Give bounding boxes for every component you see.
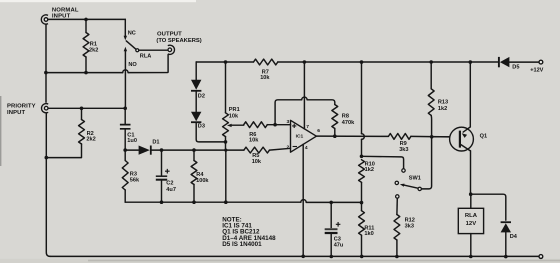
svg-text:12V: 12V bbox=[466, 221, 477, 227]
resistor R5 10k bbox=[244, 147, 270, 153]
node C3 top on sub-rail bbox=[329, 201, 333, 205]
diode D5 bbox=[500, 57, 510, 67]
wire pin7 to rail bbox=[303, 62, 305, 129]
wire normal input to NC column bbox=[48, 18, 125, 20]
node D4 bottom on 0V rail bbox=[504, 255, 508, 259]
node R1 bottom bbox=[84, 71, 88, 75]
svg-text:4u7: 4u7 bbox=[166, 187, 176, 193]
svg-text:100k: 100k bbox=[196, 178, 209, 184]
wire signal node to sub-rail bbox=[225, 150, 227, 202]
node PR1 bottom junction bbox=[224, 140, 228, 144]
node R8 bottom on output bbox=[333, 134, 337, 138]
svg-text:D1: D1 bbox=[152, 139, 159, 145]
wire output return to 0V bus with hop bbox=[46, 55, 168, 73]
svg-text:RLA: RLA bbox=[465, 213, 478, 219]
node bus to output-return bbox=[44, 71, 48, 75]
diode D3 bbox=[191, 112, 201, 121]
wire Q1 collector down bbox=[470, 151, 472, 194]
feedback wire to R8 with hop over pin7 bbox=[275, 100, 335, 125]
node RLA bottom on 0V rail bbox=[469, 255, 473, 259]
svg-text:NO: NO bbox=[128, 62, 137, 68]
wire SW1 bottom contact to R12 bbox=[396, 198, 398, 214]
diode D2 bbox=[195, 62, 197, 80]
+12V top rail bbox=[196, 61, 498, 63]
capacitor C1 1u0 bbox=[124, 108, 126, 150]
left scan edge line bbox=[0, 96, 1, 166]
wire Q1 emitter to rail bbox=[469, 62, 471, 127]
diode D1 bbox=[125, 149, 161, 151]
svg-text:Q1: Q1 bbox=[480, 134, 487, 140]
resistor R10 1k2 bbox=[359, 160, 365, 183]
svg-text:10k: 10k bbox=[252, 159, 262, 165]
wire priority input line bbox=[48, 107, 125, 109]
op-amp output wire pin6 bbox=[316, 135, 449, 138]
svg-text:3k3: 3k3 bbox=[405, 224, 414, 230]
svg-text:INPUT: INPUT bbox=[52, 13, 71, 19]
svg-text:2k2: 2k2 bbox=[86, 136, 95, 142]
0V terminal bbox=[539, 255, 543, 259]
node R9 to Q1 base and R13 bbox=[430, 135, 434, 139]
svg-text:47u: 47u bbox=[334, 243, 344, 249]
node R4 top bbox=[192, 148, 196, 152]
diode D4 bbox=[501, 223, 511, 232]
svg-text:D4: D4 bbox=[510, 234, 518, 240]
signal wire D1 to R5 bbox=[162, 149, 244, 151]
bias sub-rail wire with hop over pin4 bbox=[125, 201, 361, 203]
switch SW1 bbox=[402, 169, 405, 172]
node collector to RLA and D4 bbox=[469, 192, 473, 196]
node pin3 junction bbox=[273, 123, 277, 127]
node C3 bottom on 0V rail bbox=[330, 255, 334, 259]
svg-text:10k: 10k bbox=[260, 75, 270, 81]
svg-text:3k3: 3k3 bbox=[399, 147, 408, 153]
svg-text:7: 7 bbox=[306, 124, 309, 130]
svg-text:D3: D3 bbox=[198, 124, 205, 130]
page bottom scan band bbox=[0, 259, 560, 263]
svg-text:PR1: PR1 bbox=[229, 107, 240, 113]
wire SW1 pole to base node bbox=[422, 137, 432, 189]
svg-text:3: 3 bbox=[286, 119, 289, 125]
resistor R3 56k bbox=[124, 150, 126, 160]
relay lever RLA bbox=[126, 41, 136, 49]
node R2 top bbox=[80, 107, 84, 111]
node R12 bottom on 0V rail bbox=[395, 255, 399, 259]
input terminal NORMAL INPUT bbox=[41, 15, 48, 24]
relay contact NO bbox=[124, 47, 127, 52]
svg-text:INPUT: INPUT bbox=[7, 110, 25, 116]
svg-text:1k2: 1k2 bbox=[438, 106, 447, 112]
svg-text:D5 IS 1N4001: D5 IS 1N4001 bbox=[222, 241, 262, 248]
svg-text:C3: C3 bbox=[334, 236, 341, 242]
node rail to Q1 emitter bbox=[469, 60, 473, 64]
0V bottom rail bbox=[50, 255, 539, 257]
svg-text:R13: R13 bbox=[438, 100, 448, 106]
svg-text:RLA: RLA bbox=[140, 54, 152, 60]
svg-text:1k2: 1k2 bbox=[365, 167, 374, 173]
resistor R8 470k bbox=[332, 105, 338, 129]
wire SW1 top contact bbox=[362, 156, 404, 168]
resistor R13 1k2 bbox=[430, 62, 432, 89]
node priority-NO-C1 junction bbox=[123, 107, 127, 111]
page top white edge bbox=[0, 0, 196, 2]
svg-text:D2: D2 bbox=[198, 93, 205, 99]
svg-text:(TO SPEAKERS): (TO SPEAKERS) bbox=[156, 38, 201, 44]
relay coil RLA 12V bbox=[470, 194, 472, 208]
resistor R7 10k bbox=[254, 59, 278, 65]
svg-text:OUTPUT: OUTPUT bbox=[157, 32, 182, 38]
svg-text:SW1: SW1 bbox=[409, 176, 421, 182]
node C2 top bbox=[160, 148, 164, 152]
svg-text:2: 2 bbox=[286, 144, 289, 150]
transistor Q1 BC212 bbox=[432, 136, 450, 138]
node rail to PR1 bbox=[224, 60, 228, 64]
svg-text:6: 6 bbox=[317, 128, 320, 134]
+12V supply terminal bbox=[539, 60, 543, 64]
svg-text:PRIORITY: PRIORITY bbox=[7, 104, 36, 110]
resistor R12 3k3 bbox=[394, 215, 400, 241]
node C2 bottom bbox=[160, 200, 164, 204]
node D1 anode junction bbox=[123, 148, 127, 152]
svg-text:2k2: 2k2 bbox=[89, 47, 98, 53]
input terminal PRIORITY INPUT bbox=[42, 104, 49, 113]
potentiometer PR1 10k bbox=[225, 62, 227, 113]
svg-text:10k: 10k bbox=[229, 114, 239, 120]
node pin4 on 0V rail bbox=[301, 254, 305, 258]
node signal-to-subrail top bbox=[224, 149, 227, 152]
relay contact NC bbox=[124, 19, 126, 35]
wire to D4 bbox=[471, 194, 506, 220]
node R10-R11 sub-rail junction bbox=[360, 201, 364, 205]
svg-text:1k0: 1k0 bbox=[364, 231, 373, 237]
capacitor C2 4u7 bbox=[161, 150, 163, 202]
wire pin4 down to 0V rail bbox=[302, 144, 304, 256]
svg-text:56k: 56k bbox=[130, 177, 140, 183]
left 0V bus wire bbox=[46, 24, 50, 256]
node rail to R13 bbox=[429, 60, 433, 64]
svg-text:R8: R8 bbox=[342, 113, 349, 119]
svg-text:4: 4 bbox=[305, 145, 308, 151]
node signal-to-subrail bottom bbox=[224, 200, 228, 204]
wire pole to output terminal bbox=[139, 49, 168, 51]
node rail to R10 column bbox=[360, 60, 364, 64]
capacitor C3 47u bbox=[330, 202, 332, 256]
resistor R9 3k3 bbox=[388, 134, 411, 140]
node R11 bottom on 0V rail bbox=[360, 255, 364, 259]
svg-text:470k: 470k bbox=[342, 120, 355, 126]
resistor R11 1k0 bbox=[361, 203, 363, 211]
PR1 wiper arrow bbox=[232, 124, 244, 126]
resistor R2 2k2 bbox=[81, 108, 83, 119]
hop of R10 column over output wire bbox=[361, 62, 363, 156]
node bus to R2 return bbox=[45, 156, 49, 160]
op-amp IC1 741 bbox=[291, 120, 317, 152]
svg-text:D5: D5 bbox=[512, 64, 519, 70]
resistor R4 100k bbox=[193, 150, 195, 160]
svg-text:NC: NC bbox=[128, 30, 136, 36]
node R1 top bbox=[84, 18, 88, 22]
svg-text:10k: 10k bbox=[249, 138, 259, 144]
resistor R6 10k bbox=[244, 122, 268, 128]
node rail to pin7 bbox=[303, 60, 307, 64]
node SW1 branch bbox=[360, 155, 364, 159]
output terminal OUTPUT (TO SPEAKERS) bbox=[168, 45, 175, 54]
resistor R1 2k2 bbox=[85, 19, 87, 32]
node R4 bottom bbox=[192, 200, 196, 204]
svg-text:1u0: 1u0 bbox=[127, 138, 137, 144]
svg-text:C2: C2 bbox=[166, 181, 173, 187]
svg-text:IC1: IC1 bbox=[296, 134, 304, 140]
svg-text:+12V: +12V bbox=[530, 67, 543, 73]
